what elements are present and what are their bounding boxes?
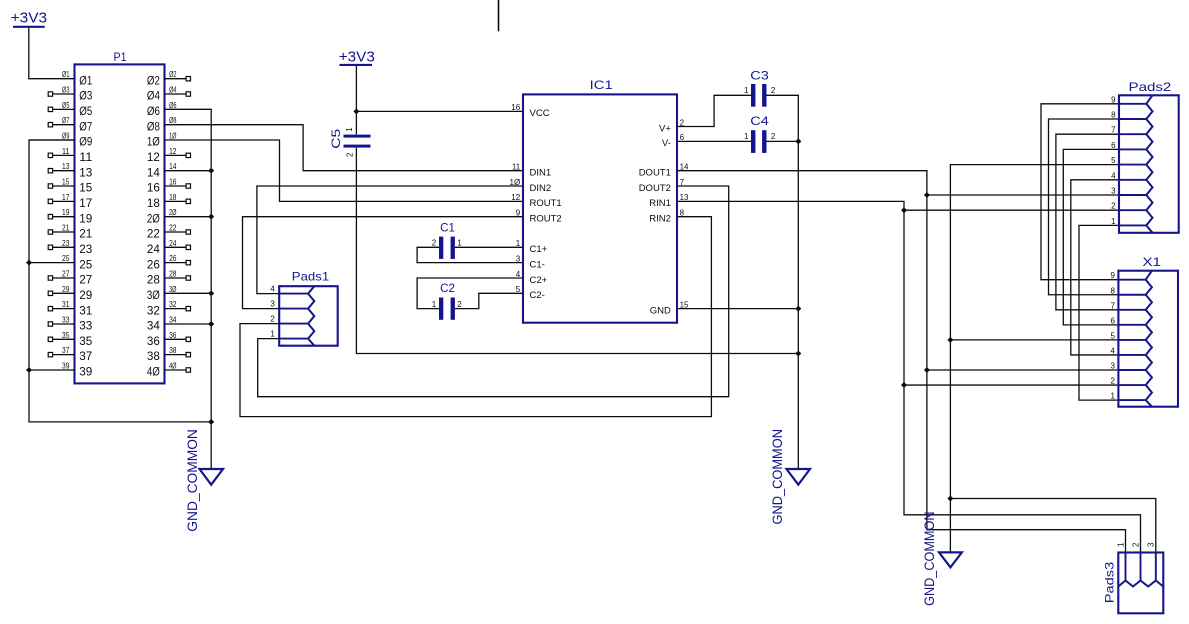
- svg-text:C1-: C1-: [530, 259, 545, 270]
- wire P1 pin 08 to IC1 DIN1: [165, 125, 524, 171]
- wire RIN1 branch to Pads2 pin 2: [904, 209, 1119, 211]
- svg-text:12: 12: [147, 150, 160, 164]
- svg-text:13: 13: [79, 165, 92, 179]
- svg-text:Ø8: Ø8: [169, 116, 177, 125]
- power +3V3 (left): [11, 9, 48, 26]
- svg-text:Ø3: Ø3: [79, 89, 92, 103]
- svg-text:V-: V-: [662, 138, 671, 149]
- svg-text:26: 26: [169, 254, 177, 263]
- wire IC1 V- to C4 pin1: [677, 140, 751, 142]
- svg-text:4Ø: 4Ø: [147, 365, 160, 379]
- P1 pin 36: [147, 331, 191, 348]
- capacitor C2: [439, 281, 455, 320]
- wire C1 pin2 to IC1 C1-: [417, 247, 523, 262]
- svg-text:21: 21: [79, 227, 92, 241]
- connector Pads3 body: [1102, 553, 1163, 614]
- svg-text:Ø7: Ø7: [62, 116, 70, 125]
- svg-text:12: 12: [169, 147, 177, 156]
- svg-text:2: 2: [1111, 377, 1116, 386]
- P1 pin 32: [147, 300, 191, 317]
- IC1 pin 3 C1-: [516, 254, 545, 270]
- svg-text:RIN2: RIN2: [649, 213, 671, 224]
- svg-text:9: 9: [1111, 271, 1116, 280]
- connector X1 body: [1118, 255, 1178, 407]
- svg-text:18: 18: [169, 193, 177, 202]
- P1 pin 04: [147, 86, 191, 103]
- P1 pin 03: [48, 86, 92, 103]
- wire P1 pin 09/25/39 to GND rail: [29, 140, 211, 422]
- P1 pin 01: [62, 70, 93, 87]
- svg-text:26: 26: [147, 257, 160, 271]
- wire C5 bottom to GND net: [356, 148, 798, 354]
- svg-text:V+: V+: [659, 123, 671, 134]
- svg-text:23: 23: [79, 242, 92, 256]
- svg-text:Ø9: Ø9: [79, 135, 92, 149]
- svg-text:IC1: IC1: [590, 78, 613, 92]
- wire sheet-edge stub top center: [498, 0, 500, 31]
- svg-text:35: 35: [79, 334, 92, 348]
- node junction +3V3 / VCC / C5: [353, 108, 359, 114]
- svg-text:39: 39: [62, 361, 70, 370]
- svg-text:11: 11: [79, 150, 92, 164]
- IC1 pin 14 DOUT1: [639, 162, 689, 178]
- svg-text:31: 31: [62, 300, 70, 309]
- svg-text:GND_COMMON: GND_COMMON: [921, 512, 937, 606]
- svg-text:X1: X1: [1142, 255, 1161, 269]
- wire C3 pin2 to GND rail: [767, 95, 799, 469]
- svg-text:22: 22: [147, 227, 160, 241]
- wire Pads2 pin 4 to X1 pin 4: [1071, 180, 1119, 355]
- svg-text:1: 1: [457, 239, 462, 248]
- node junction GND / Pads3 branch: [947, 496, 953, 502]
- svg-text:13: 13: [62, 162, 70, 171]
- capacitor C4: [750, 114, 769, 153]
- svg-text:27: 27: [62, 269, 70, 278]
- P1 pin 08: [147, 116, 177, 133]
- svg-text:4: 4: [1111, 346, 1116, 355]
- svg-text:Ø9: Ø9: [62, 132, 70, 141]
- P1 pin 24: [147, 239, 191, 256]
- svg-text:27: 27: [79, 273, 92, 287]
- svg-text:3Ø: 3Ø: [169, 285, 176, 294]
- node junction P1 pin 14: [208, 168, 214, 174]
- svg-text:32: 32: [169, 300, 177, 309]
- IC1 pin 2 V+: [659, 118, 685, 134]
- ground GND_COMMON (left): [184, 429, 223, 532]
- IC1 pin 6 V-: [662, 133, 685, 149]
- P1 pin 37: [48, 346, 92, 363]
- svg-text:37: 37: [79, 349, 92, 363]
- svg-text:3: 3: [1111, 187, 1116, 196]
- svg-text:37: 37: [62, 346, 70, 355]
- svg-text:Ø2: Ø2: [147, 73, 160, 87]
- IC1 pin 5 C2-: [516, 285, 545, 301]
- svg-text:4Ø: 4Ø: [169, 361, 176, 370]
- svg-text:4: 4: [1111, 171, 1116, 180]
- node junction C5 branch / rail: [795, 351, 801, 357]
- svg-text:32: 32: [147, 303, 160, 317]
- wire +3V3 to IC1 VCC and C5: [355, 66, 357, 134]
- wire IC1 DOUT1 net to Pads2/X1/Pads3: [677, 171, 1126, 553]
- svg-text:19: 19: [79, 211, 92, 225]
- wire Pads1 pin 1 to IC1 DOUT2: [258, 186, 729, 397]
- svg-text:Ø6: Ø6: [147, 104, 160, 118]
- svg-text:3: 3: [270, 300, 275, 309]
- capacitor C5: [329, 128, 371, 148]
- svg-text:11: 11: [512, 162, 521, 171]
- svg-text:22: 22: [169, 224, 177, 233]
- wire IC1 V+ to C3 pin1: [677, 95, 751, 126]
- svg-text:6: 6: [1111, 141, 1116, 150]
- svg-text:3: 3: [1111, 362, 1116, 371]
- svg-text:1: 1: [345, 127, 354, 132]
- node junction P1 pin 34: [208, 321, 214, 327]
- svg-text:34: 34: [147, 319, 160, 333]
- IC1 pin 9 ROUT2: [516, 208, 562, 224]
- P1 pin 31: [48, 300, 92, 317]
- wire VCC to IC1 pin 16: [356, 110, 523, 112]
- wire Pads2 pin 7 to X1 pin 7: [1056, 134, 1119, 310]
- svg-text:4: 4: [270, 285, 275, 294]
- svg-text:11: 11: [62, 147, 70, 156]
- P1 pin 15: [48, 178, 92, 195]
- wire IC1 ROUT2 to Pads1 pin 3: [243, 217, 524, 309]
- svg-text:Ø8: Ø8: [147, 119, 160, 133]
- P1 pin 25: [29, 254, 93, 271]
- svg-text:DIN1: DIN1: [530, 167, 552, 178]
- svg-text:2: 2: [345, 152, 354, 157]
- IC1 pin 15 GND: [650, 300, 689, 316]
- svg-text:C4: C4: [750, 114, 769, 128]
- P1 pin 14: [147, 162, 211, 179]
- IC1 pin 1 C1+: [516, 239, 548, 255]
- svg-text:Ø1: Ø1: [79, 73, 92, 87]
- svg-text:1: 1: [432, 300, 437, 309]
- connector Pads2 body: [1119, 80, 1179, 233]
- svg-text:P1: P1: [114, 50, 127, 64]
- svg-text:5: 5: [1111, 156, 1116, 165]
- wire IC1 RIN1 net to Pads2/X1/Pads3: [677, 201, 1141, 552]
- svg-text:Ø4: Ø4: [147, 89, 160, 103]
- svg-text:Ø3: Ø3: [62, 86, 70, 95]
- P1 pin 12: [147, 147, 191, 164]
- wire GND branch to X1 pin 5: [950, 339, 1118, 341]
- node junction RIN1 / X1 pin2: [901, 382, 907, 388]
- svg-text:33: 33: [62, 315, 70, 324]
- svg-text:3: 3: [1147, 542, 1156, 547]
- svg-text:38: 38: [169, 346, 177, 355]
- node junction GND rail / left branch: [208, 419, 214, 425]
- svg-text:5: 5: [1111, 331, 1116, 340]
- wire IC1 GND pin 15 to GND rail: [677, 308, 798, 310]
- svg-text:29: 29: [79, 288, 92, 302]
- IC1 pin 13 RIN1: [649, 193, 689, 209]
- svg-text:9: 9: [1111, 95, 1116, 104]
- P1 pin 07: [48, 116, 92, 133]
- svg-text:+3V3: +3V3: [11, 9, 48, 26]
- svg-text:2: 2: [771, 132, 776, 141]
- IC1 pin 7 DOUT2: [639, 178, 685, 194]
- svg-text:29: 29: [62, 285, 70, 294]
- svg-text:Ø1: Ø1: [62, 70, 70, 79]
- svg-text:17: 17: [79, 196, 92, 210]
- wire Pads2 pin 6 to X1 pin 6: [1063, 149, 1119, 324]
- ground GND_COMMON (middle): [769, 429, 810, 525]
- svg-text:1Ø: 1Ø: [169, 132, 176, 141]
- svg-text:16: 16: [169, 178, 177, 187]
- svg-text:2: 2: [1131, 542, 1140, 547]
- svg-text:C1: C1: [440, 220, 455, 234]
- svg-text:1: 1: [1116, 542, 1125, 547]
- P1 pin 40: [147, 361, 191, 378]
- svg-text:C1+: C1+: [530, 244, 548, 255]
- wire Pads2 pin 8 to X1 pin 8: [1049, 119, 1120, 295]
- wire C1 pin1 to IC1 C1+: [455, 246, 523, 248]
- svg-text:14: 14: [147, 165, 160, 179]
- svg-text:28: 28: [169, 269, 177, 278]
- svg-text:7: 7: [1111, 126, 1116, 135]
- svg-text:Ø5: Ø5: [79, 104, 92, 118]
- IC1 pin 8 RIN2: [649, 208, 684, 224]
- svg-text:19: 19: [62, 208, 70, 217]
- svg-text:21: 21: [62, 224, 70, 233]
- P1 pin 33: [48, 315, 92, 332]
- svg-text:25: 25: [79, 257, 92, 271]
- P1 pin 26: [147, 254, 191, 271]
- P1 pin 06: [147, 101, 211, 118]
- P1 pin 38: [147, 346, 191, 363]
- svg-text:38: 38: [147, 349, 160, 363]
- svg-text:DOUT2: DOUT2: [639, 183, 671, 194]
- svg-text:Pads3: Pads3: [1102, 561, 1116, 603]
- node junction P1 pin 20: [208, 214, 214, 220]
- op-amp/transceiver IC1 body: [523, 78, 677, 323]
- svg-text:15: 15: [62, 178, 70, 187]
- P1 pin 13: [48, 162, 92, 179]
- P1 pin 02: [147, 70, 191, 87]
- svg-text:DIN2: DIN2: [530, 183, 552, 194]
- P1 pin 19: [48, 208, 92, 225]
- svg-text:3Ø: 3Ø: [147, 288, 160, 302]
- svg-text:ROUT1: ROUT1: [530, 198, 562, 209]
- wire C2 pin2 to IC1 C2-: [455, 293, 523, 308]
- P1 pin 35: [48, 331, 92, 348]
- svg-text:16: 16: [511, 103, 520, 112]
- svg-text:33: 33: [79, 319, 92, 333]
- svg-text:1: 1: [744, 132, 749, 141]
- wire DOUT1 branch to X1 pin 3: [927, 369, 1119, 371]
- svg-text:36: 36: [169, 331, 177, 340]
- svg-text:1: 1: [744, 86, 749, 95]
- svg-text:2: 2: [1111, 202, 1116, 211]
- IC1 pin 12 ROUT1: [511, 193, 561, 209]
- svg-text:16: 16: [147, 181, 160, 195]
- capacitor C3: [750, 68, 769, 106]
- svg-text:C5: C5: [329, 128, 343, 148]
- svg-text:C3: C3: [750, 68, 769, 82]
- svg-text:2Ø: 2Ø: [147, 211, 160, 225]
- wire GND rail right of P1 (pin 06 down to ground): [165, 109, 212, 469]
- node junction GND / X1 pin5: [947, 337, 953, 343]
- svg-text:31: 31: [79, 303, 92, 317]
- node junction RIN1 / Pads2 pin2: [901, 207, 907, 213]
- wire C4 pin2 to GND rail: [767, 140, 799, 142]
- svg-text:39: 39: [79, 365, 92, 379]
- wire IC1 DIN2 to Pads1 pin 4: [257, 186, 523, 294]
- ground GND_COMMON (bottom right): [921, 512, 962, 606]
- wire IC1 C2+ to C2 pin1: [417, 278, 523, 309]
- svg-text:GND: GND: [650, 305, 671, 316]
- svg-text:1: 1: [1111, 217, 1116, 226]
- P1 pin 18: [147, 193, 191, 210]
- node junction C4 / GND rail: [795, 138, 801, 144]
- svg-text:23: 23: [62, 239, 70, 248]
- node junction DOUT1 / Pads2 pin3: [924, 192, 930, 198]
- node junction DOUT1 / X1 pin3: [924, 367, 930, 373]
- wire DOUT1 branch to Pads2 pin 3: [927, 194, 1119, 196]
- P1 pin 27: [48, 269, 92, 286]
- svg-text:18: 18: [147, 196, 160, 210]
- svg-text:24: 24: [169, 239, 177, 248]
- P1 pin 10: [147, 132, 177, 149]
- wire GND net Pads2 pin5 / X1 pin5 / Pads3 pin3: [950, 165, 1119, 553]
- svg-text:24: 24: [147, 242, 160, 256]
- svg-text:2: 2: [270, 315, 275, 324]
- svg-text:C2+: C2+: [530, 275, 548, 286]
- svg-text:+3V3: +3V3: [339, 49, 375, 66]
- wire RIN1 branch to X1 pin 2: [904, 384, 1118, 386]
- P1 pin 29: [48, 285, 92, 302]
- svg-text:Pads2: Pads2: [1129, 80, 1172, 94]
- svg-text:GND_COMMON: GND_COMMON: [184, 429, 200, 532]
- svg-text:1Ø: 1Ø: [147, 135, 160, 149]
- svg-text:Pads1: Pads1: [292, 270, 330, 284]
- node junction P1 pin 39: [26, 367, 32, 373]
- IC1 pin 4 C2+: [516, 270, 548, 286]
- svg-text:C2-: C2-: [530, 290, 545, 301]
- P1 pin 34: [147, 315, 211, 332]
- P1 pin 16: [147, 178, 191, 195]
- wire P1 pin 10 to IC1 ROUT1: [165, 140, 524, 201]
- capacitor C1: [439, 220, 455, 259]
- P1 pin 17: [48, 193, 92, 210]
- node junction IC1 GND / rail: [795, 306, 801, 312]
- svg-text:Ø2: Ø2: [169, 70, 177, 79]
- svg-text:2: 2: [771, 86, 776, 95]
- svg-text:17: 17: [62, 193, 70, 202]
- P1 pin 39: [29, 361, 93, 378]
- svg-text:VCC: VCC: [530, 108, 550, 119]
- P1 pin 20: [147, 208, 211, 225]
- P1 pin 22: [147, 224, 191, 241]
- svg-text:8: 8: [1111, 111, 1116, 120]
- svg-text:36: 36: [147, 334, 160, 348]
- svg-text:C2: C2: [440, 281, 455, 295]
- svg-text:34: 34: [169, 315, 177, 324]
- IC1 pin 10 DIN2: [510, 178, 552, 194]
- svg-text:28: 28: [147, 273, 160, 287]
- IC1 pin 11 DIN1: [512, 162, 551, 178]
- node junction P1 pin 25: [26, 260, 32, 266]
- wire GND branch to Pads3 pin 3: [950, 499, 1155, 553]
- P1 pin 23: [48, 239, 92, 256]
- P1 pin 05: [48, 101, 92, 118]
- P1 pin 30: [147, 285, 211, 302]
- svg-text:7: 7: [1111, 301, 1116, 310]
- connector P1 40-pin header body: [75, 50, 165, 383]
- svg-text:14: 14: [169, 162, 177, 171]
- svg-text:12: 12: [511, 193, 520, 202]
- wire +3V3 to P1 pin 01: [29, 28, 75, 79]
- P1 pin 09: [29, 132, 93, 149]
- wire Pads1 pin 2 to IC1 RIN2: [240, 217, 711, 417]
- node junction P1 pin 30: [208, 290, 214, 296]
- svg-text:Ø6: Ø6: [169, 101, 177, 110]
- svg-text:Ø4: Ø4: [169, 86, 177, 95]
- svg-text:2: 2: [457, 300, 462, 309]
- svg-text:8: 8: [1111, 286, 1116, 295]
- svg-text:15: 15: [79, 181, 92, 195]
- P1 pin 11: [48, 147, 92, 164]
- svg-text:6: 6: [1111, 316, 1116, 325]
- svg-text:DOUT1: DOUT1: [639, 167, 671, 178]
- IC1 pin 16 VCC: [511, 103, 549, 119]
- wire Pads2 pin 9 to X1 pin 9: [1041, 104, 1119, 280]
- svg-text:1: 1: [1111, 392, 1116, 401]
- power +3V3 (middle): [339, 49, 375, 66]
- svg-text:ROUT2: ROUT2: [530, 213, 562, 224]
- P1 pin 28: [147, 269, 191, 286]
- svg-text:Ø7: Ø7: [79, 119, 92, 133]
- svg-text:2Ø: 2Ø: [169, 208, 176, 217]
- P1 pin 21: [48, 224, 92, 241]
- svg-text:2: 2: [432, 239, 437, 248]
- wire Pads2 pin 1 to X1 pin 1: [1079, 225, 1119, 400]
- svg-text:RIN1: RIN1: [649, 198, 671, 209]
- svg-text:GND_COMMON: GND_COMMON: [769, 429, 785, 525]
- svg-text:1: 1: [270, 330, 275, 339]
- svg-text:Ø5: Ø5: [62, 101, 70, 110]
- connector Pads1 body: [279, 270, 338, 346]
- svg-text:25: 25: [62, 254, 70, 263]
- svg-text:35: 35: [62, 331, 70, 340]
